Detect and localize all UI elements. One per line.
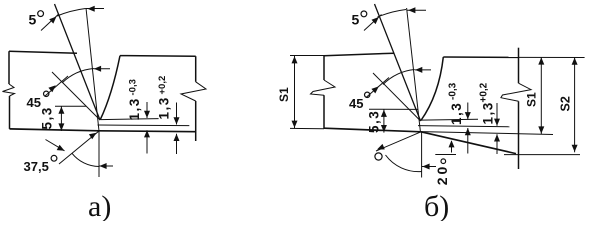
label 37,5deg a: [24, 155, 57, 174]
plate a: right bevel edge: [100, 56, 120, 120]
svg-text:1,3: 1,3: [157, 96, 172, 119]
label 5,3 a: [40, 106, 55, 129]
s1 left dimension line b: [292, 56, 298, 128]
5 deg leader arrow b: [364, 15, 382, 31]
vertical reference line a (through root): [86, 8, 99, 131]
label 45deg a: [27, 91, 49, 110]
dim 1.3+0.2 line b: [494, 103, 500, 154]
svg-text:а): а): [88, 190, 111, 221]
svg-text:45: 45: [349, 96, 363, 111]
45 deg construction line a: [52, 72, 100, 120]
45 deg dimension arc a: [63, 69, 94, 83]
svg-text:S1: S1: [277, 87, 291, 102]
20 deg dim reference line b: [435, 154, 456, 156]
label S1 right b: [525, 92, 539, 107]
5 deg dimension arc b: [378, 10, 407, 18]
label b): [424, 190, 449, 223]
svg-text:-0,3: -0,3: [128, 79, 139, 95]
label 20deg b: [434, 159, 450, 185]
s1 left bottom extension b: [290, 127, 324, 129]
root slit upper line a: [100, 119, 158, 120]
plate b: right edge with break zigzag: [501, 48, 531, 169]
svg-text:5: 5: [29, 12, 37, 28]
5.3 dimension line b: [381, 109, 387, 132]
plate b: right bevel edge: [421, 57, 443, 121]
label S2 b: [559, 96, 573, 111]
37.5 leader arrow a: [46, 140, 65, 151]
5.3 dimension line a: [58, 106, 64, 131]
arrowhead on helper line b: [377, 144, 385, 150]
plate a: bottom surface left of root: [10, 129, 100, 131]
svg-text:1,3: 1,3: [127, 97, 142, 120]
45 deg leader arrow b: [366, 78, 389, 98]
label 1,3+0,2 a: [157, 76, 172, 120]
label 5,3 b: [367, 110, 382, 133]
svg-text:-0,3: -0,3: [448, 82, 459, 100]
plate a: top surface left segment: [9, 51, 77, 53]
vertical extension below root a: [98, 131, 100, 177]
plate a: left edge with break zigzag: [3, 51, 15, 129]
plate b: left bevel edge (5 deg line, extended): [375, 4, 421, 121]
45 deg construction line b: [373, 73, 421, 121]
svg-text:S1: S1: [525, 92, 539, 107]
dim 1.3-0.3 line b: [465, 103, 471, 154]
plate a: left bevel edge (5 deg line, extended): [55, 4, 101, 120]
svg-text:5,3: 5,3: [40, 106, 55, 129]
plate b: sloped bottom (20 deg): [421, 132, 516, 154]
svg-text:5,3: 5,3: [367, 110, 382, 133]
label 45deg b: [349, 92, 370, 111]
s1 right dimension line b: [538, 57, 544, 134]
plate a: top surface right segment: [120, 55, 196, 58]
plate b: top surface left segment: [324, 53, 394, 56]
svg-text:+0,2: +0,2: [157, 76, 168, 95]
vertical reference line b (through root): [407, 8, 421, 132]
root slit upper line b: [421, 118, 478, 121]
s2 bottom extension line b: [504, 154, 580, 156]
svg-text:5: 5: [352, 12, 360, 28]
45 deg leader arrow a: [45, 76, 68, 96]
5 deg leader arrow a: [41, 14, 59, 31]
vertical extension below root b: [421, 132, 423, 178]
45 deg dimension arc b: [383, 70, 415, 85]
5.3 extension line b: [369, 108, 418, 110]
bottom level extension line b: [421, 132, 553, 135]
s1 left top extension b: [290, 55, 324, 57]
45 deg arc arrow (horizontal tail) a: [94, 66, 111, 72]
root slit lower line b: [418, 126, 510, 127]
label 5deg a: [29, 11, 44, 28]
svg-text:1,3: 1,3: [481, 101, 496, 124]
37.5 arc arrow (horizontal tail) a: [99, 163, 113, 169]
bottom dimension arc b: [386, 155, 422, 172]
dim 1.3-0.3 line a: [144, 102, 150, 154]
37.5 deg dimension arc a: [72, 153, 99, 166]
plate a: right edge with break zigzag: [181, 56, 206, 141]
label 1,3-0,3 a: [127, 79, 142, 120]
plate a: bottom surface right of root: [99, 130, 196, 133]
bottom arc arrow (horizontal tail) b: [422, 164, 436, 170]
label 5deg b: [352, 11, 367, 28]
svg-text:б): б): [424, 190, 449, 221]
20 deg dim arrow b: [449, 140, 455, 152]
label 1,3+0,2 b: [479, 82, 496, 124]
plate b: bottom surface left of root: [324, 128, 421, 132]
dim 1.3+0.2 line a: [174, 103, 180, 155]
svg-text:+0,2: +0,2: [479, 82, 490, 102]
svg-text:S2: S2: [559, 96, 573, 111]
plate b: top surface right segment and extension: [443, 56, 584, 59]
label degree circle b: [375, 153, 382, 160]
arrowhead on 37.5 line near root a: [89, 133, 97, 140]
5 deg dimension arc a: [57, 9, 86, 17]
plate b: left edge with break zigzag: [311, 56, 336, 129]
root slit lower line a: [98, 124, 190, 127]
s2 dimension line b: [572, 57, 578, 152]
5 deg arc arrow (horizontal tail) a: [86, 6, 104, 12]
svg-text:20: 20: [434, 164, 450, 186]
label a): [88, 190, 111, 223]
svg-text:37,5: 37,5: [24, 159, 49, 174]
label S1 left b: [277, 87, 291, 102]
svg-text:1,3: 1,3: [449, 102, 464, 125]
5.3 extension line a: [55, 105, 86, 107]
20 deg helper line down-left b: [376, 132, 421, 151]
label 1,3-0,3 b: [448, 82, 465, 125]
37.5 deg line a: [59, 131, 99, 164]
45 deg arc arrow (horizontal tail) b: [415, 67, 431, 73]
5 deg arc arrow (horizontal tail) b: [407, 7, 426, 13]
